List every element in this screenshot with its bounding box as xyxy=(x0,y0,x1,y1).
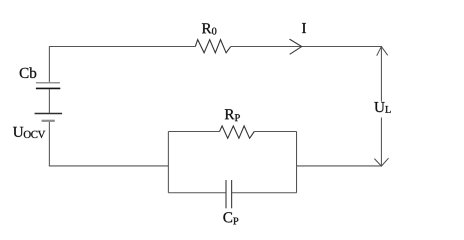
capacitor Cp left plate xyxy=(225,180,227,208)
wire RC-loop top edge right segment xyxy=(254,130,296,132)
voltage source U_OCV battery cell: short plate xyxy=(42,120,55,122)
voltage arrow U_L: right vertical line with arrowheads both ends xyxy=(374,47,388,167)
resistor R0 xyxy=(195,40,230,53)
voltage source U_OCV battery cell: long plate xyxy=(35,113,63,115)
capacitor Cb xyxy=(36,83,60,89)
resistor Rp xyxy=(220,126,255,138)
label I xyxy=(302,23,306,33)
wire RC-loop bottom edge right segment xyxy=(232,192,297,194)
label CP xyxy=(223,212,238,224)
wire top-left horizontal from node at left branch to resistor R0 xyxy=(49,46,195,48)
capacitor Cp right plate xyxy=(231,180,233,208)
wire bottom-left horizontal from corner to RC loop xyxy=(49,165,169,167)
wire between Cb and U_OCV xyxy=(48,89,50,113)
wire bottom-right horizontal from RC loop to U_L arrow bottom xyxy=(297,165,382,167)
label RP xyxy=(225,109,240,121)
label UL xyxy=(374,102,390,113)
wire below U_OCV down to bottom-left corner xyxy=(48,122,50,166)
label UOCV xyxy=(13,127,45,138)
current arrowhead I on top wire xyxy=(290,39,302,54)
wire RC-loop left edge vertical xyxy=(167,131,169,192)
wire RC-loop right edge vertical xyxy=(296,131,298,192)
wire RC-loop bottom edge left segment xyxy=(168,192,226,194)
wire left vertical from top-left corner down to Cb xyxy=(48,46,50,82)
wire top-right horizontal from R0 to top-right corner xyxy=(231,46,382,48)
wire RC-loop top edge left segment xyxy=(168,130,219,132)
label R0 xyxy=(202,23,217,34)
label Cb xyxy=(20,67,37,78)
